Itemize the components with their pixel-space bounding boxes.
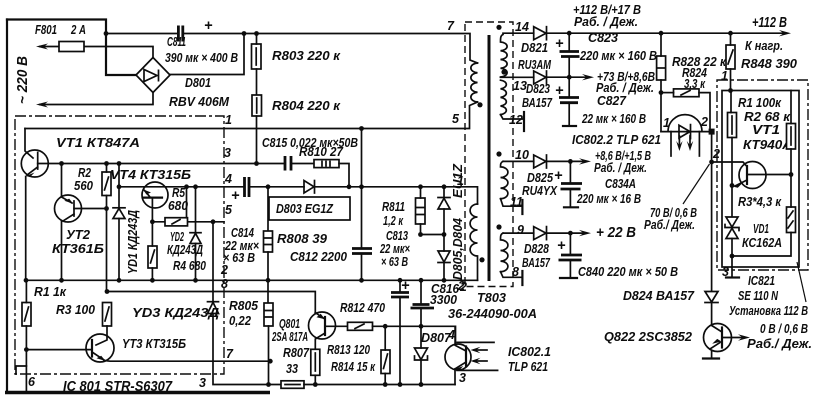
wire line221 pin5 [152, 221, 224, 223]
secondary winding 14-13 [501, 35, 508, 78]
wire main DC rail left of C811 [106, 33, 177, 35]
R808 inner bars [264, 238, 272, 245]
svg-text:680: 680 [168, 198, 189, 213]
wire line163 between C815 R810 [292, 163, 315, 165]
node C812 pin4 line [359, 184, 364, 189]
svg-text:+: + [204, 18, 213, 34]
VT1 right emitter arrowhead [734, 183, 743, 188]
wire C812 column upper [361, 129, 363, 249]
svg-text:F801: F801 [35, 22, 57, 37]
R2 right inner bar [790, 127, 792, 145]
svg-text:10: 10 [515, 148, 529, 162]
YD2 triangle [190, 233, 201, 243]
VT1 right collector wire [747, 174, 791, 176]
feedback winding 1-2 [470, 204, 477, 280]
arrow AC line1 [36, 44, 48, 50]
resistor R804 [252, 95, 262, 116]
node pin8 line R2R3 column [105, 289, 110, 294]
node VT4 emitter line221 [150, 219, 155, 224]
node rail R848 [728, 31, 733, 36]
node D804 pin2 line [442, 278, 447, 283]
R807 inner mark [314, 353, 316, 371]
wire C812 column lower [361, 254, 363, 281]
+73V arrowhead [582, 74, 594, 80]
winding14 phasing dot [496, 25, 501, 30]
capacitor C834A [569, 161, 571, 183]
diode D823 [534, 71, 546, 84]
wire pin13 center tap [501, 76, 534, 78]
svg-text:К нагр.: К нагр. [745, 38, 783, 53]
winding9 phasing dot [496, 224, 501, 229]
wire pin8 line [107, 292, 315, 313]
capacitor C814 plates [245, 177, 250, 197]
D825 bar [546, 155, 548, 168]
svg-text:1: 1 [663, 116, 670, 130]
svg-text:D801: D801 [185, 75, 211, 90]
label box D803 [269, 197, 350, 220]
svg-text:3: 3 [722, 265, 729, 279]
svg-text:D821: D821 [521, 40, 548, 55]
wire R1 bottom to VT3 base [25, 326, 27, 350]
resistor R1 1k [22, 303, 31, 327]
svg-text:2: 2 [220, 263, 228, 277]
resistor R2 560 [102, 172, 111, 196]
svg-text:IC821: IC821 [748, 273, 775, 288]
wire R811 bottom [420, 224, 422, 235]
wire C834A bottom [569, 189, 571, 206]
svg-text:3: 3 [224, 146, 231, 160]
wire R2 right top [790, 91, 792, 124]
zener VD1 KC162A triangle upper [726, 217, 738, 227]
wire D807 bottom [420, 360, 422, 385]
capacitor C811 [178, 26, 182, 42]
wire small link left [16, 366, 26, 374]
VT1 right emitter diag [735, 180, 747, 186]
wire C816 bottom to base line [420, 308, 422, 326]
node C812 top pin1 line [359, 126, 364, 131]
svg-text:8: 8 [221, 277, 228, 291]
wire C813 bottom [399, 297, 401, 385]
wire R808 bottom [267, 252, 269, 303]
node R813 rail [383, 382, 388, 387]
wire AC line 2 with arrow [40, 93, 153, 105]
+8.6V arrowhead [579, 158, 591, 164]
primary winding [471, 63, 478, 102]
transistor Q801 [309, 312, 336, 339]
capacitor C840 [569, 233, 571, 254]
svg-text:R1 1к: R1 1к [34, 284, 67, 299]
svg-text:VD1: VD1 [753, 221, 769, 236]
svg-text:Раб. / Деж.: Раб. / Деж. [574, 14, 638, 29]
node D807 rail [419, 382, 424, 387]
svg-text:С823: С823 [588, 30, 619, 45]
svg-text:RU3АМ: RU3АМ [518, 57, 552, 72]
R848 inner slash [728, 50, 733, 64]
VT3 emitter arrowhead [97, 356, 106, 361]
node base node 2 [709, 160, 714, 165]
svg-text:36-244090-00А: 36-244090-00А [448, 306, 537, 321]
C816 plates [411, 305, 435, 309]
wire C827 bottom [568, 103, 570, 125]
D823 bar [546, 71, 548, 84]
IC802.1 emitter arrowhead [455, 366, 463, 370]
svg-text:560: 560 [74, 178, 94, 193]
node rail R828 [659, 31, 664, 36]
R1 right inner bar [731, 116, 733, 134]
diode YD2 KD243D [195, 187, 197, 233]
wire R2 bottom to VT2 base node [106, 196, 108, 292]
svg-text:× 63 В: × 63 В [223, 250, 255, 265]
node VT3 base [24, 347, 29, 352]
C823 plates [560, 52, 580, 57]
VT2 collector diag [63, 214, 74, 221]
wire R3 right top [790, 175, 792, 208]
arrow AC line2 [36, 102, 48, 108]
wire AC line 1 with arrow [40, 47, 153, 58]
node C816 top [419, 278, 424, 283]
Q822 collector diag [712, 326, 722, 332]
resistor R813 R814 [381, 350, 390, 374]
svg-text:D803 ЕG1Z: D803 ЕG1Z [276, 201, 334, 216]
diode D805 [443, 187, 445, 198]
node C813 top [398, 278, 403, 283]
svg-text:2SA 817А: 2SA 817А [271, 329, 308, 344]
D824 bar [705, 302, 718, 304]
node line163 R2 [104, 161, 109, 166]
svg-text:5: 5 [225, 203, 233, 217]
wire R828 top [660, 33, 662, 56]
transistor VT4 [142, 182, 168, 208]
svg-text:R808 39: R808 39 [277, 231, 328, 246]
node D823 C823 [567, 75, 572, 80]
node rail junction R803 [254, 31, 259, 36]
resistor R3 4.3k right [787, 207, 796, 233]
svg-text:14: 14 [515, 20, 529, 34]
svg-text:С812 2200: С812 2200 [290, 249, 348, 264]
VT1 emitter arrow [27, 167, 38, 175]
C827 plates [559, 98, 579, 103]
svg-text:22 мк × 160 В: 22 мк × 160 В [581, 111, 646, 126]
D805 triangle [438, 198, 450, 209]
resistor R824 3.3k [674, 89, 700, 97]
wire C823 bottom [568, 57, 570, 78]
node R828 R824 [659, 90, 664, 95]
wire D823 out [547, 76, 590, 78]
node VT1 right emitter [730, 183, 735, 188]
svg-text:0,22: 0,22 [229, 313, 252, 328]
Q822 emitter wire with arrow [722, 337, 745, 339]
wire D804 bottom [443, 263, 445, 281]
bridge rectifier D801 [136, 58, 170, 93]
svg-text:4: 4 [447, 328, 455, 342]
svg-text:R814 15 к: R814 15 к [331, 359, 376, 374]
wire C840 bottom [569, 260, 571, 277]
wire R4 bottom [151, 268, 153, 280]
rail arrowhead [779, 30, 791, 36]
wire R1 right top [730, 91, 732, 113]
node VT2 base R2 column [104, 206, 109, 211]
wire R848 top [730, 33, 732, 45]
wire pin14 [503, 32, 534, 34]
svg-text:R807: R807 [283, 345, 310, 360]
secondary winding 10-11 [501, 161, 508, 198]
svg-text:R805: R805 [229, 298, 259, 313]
svg-text:+: + [231, 188, 240, 204]
svg-text:КТ940А: КТ940А [743, 137, 792, 152]
wire pin4 line right of D803 [315, 187, 478, 204]
diode D828 [534, 227, 546, 240]
svg-text:1,2 к: 1,2 к [383, 213, 404, 228]
svg-text:УТ2: УТ2 [66, 227, 91, 242]
node R808 top pin4 line [266, 184, 271, 189]
svg-text:RU4YX: RU4YX [522, 183, 558, 198]
wire D824 to Q822 [711, 303, 713, 326]
resistor R805 0.22 [264, 303, 273, 326]
svg-text:1: 1 [457, 174, 464, 188]
C827 end bar [563, 125, 576, 127]
svg-text:Раб./ Деж.: Раб./ Деж. [644, 217, 695, 232]
wire pin8 [501, 272, 523, 278]
primary phasing dot [477, 102, 482, 107]
svg-text:13: 13 [513, 79, 527, 93]
YD1 cathode bar [113, 207, 125, 209]
IC802.2 leg 2 [698, 132, 700, 156]
wire R1 top [25, 280, 27, 302]
resistor R807 33 [311, 349, 320, 375]
optocoupler IC802.2 LED line [661, 131, 712, 133]
wire R824 right down [699, 93, 710, 128]
svg-text:6: 6 [28, 375, 36, 389]
fuse F801 [59, 42, 84, 52]
wire pin6 down to frame [25, 350, 27, 392]
wire R803 top [256, 34, 258, 45]
svg-text:ТLР 621: ТLР 621 [508, 359, 548, 374]
rail resistor inner mark [285, 384, 300, 386]
svg-text:3,3 к: 3,3 к [684, 76, 706, 91]
R3 right inner slashes [788, 211, 793, 228]
svg-text:Раб. / Деж.: Раб. / Деж. [594, 160, 647, 175]
leader diagonal 70V [683, 164, 710, 204]
secondary winding 9-8 [501, 233, 508, 272]
node R804 on line163 [254, 161, 259, 166]
Q822 end bar [703, 357, 719, 359]
node YD1 pin4 line [117, 184, 122, 189]
R3 inner slash [105, 307, 109, 321]
wire pin2 line [26, 279, 478, 281]
R811 inner bars [416, 208, 425, 215]
svg-text:2: 2 [712, 147, 720, 161]
pin12 end bar [523, 112, 525, 131]
svg-text:+: + [557, 238, 566, 254]
IC802.2 dome arc [668, 115, 702, 132]
svg-text:SЕ 110 N: SЕ 110 N [738, 288, 778, 303]
node R805 bottom rail [266, 382, 271, 387]
node collector R2 [789, 172, 794, 177]
R5 inner slash [172, 220, 180, 225]
resistor R812 470 [348, 322, 373, 330]
svg-text:2: 2 [700, 115, 708, 129]
diode D807 triangle [415, 348, 428, 360]
C840 end bar [560, 277, 577, 279]
wire R3 bottom to VT3 collector [96, 326, 107, 345]
capacitor C823 [568, 33, 570, 51]
resistor R804 inner mark [256, 98, 258, 113]
node D825 C834A [568, 159, 573, 164]
node link right [442, 232, 447, 237]
D805 bar [438, 197, 450, 199]
svg-text:КТ361Б: КТ361Б [52, 241, 104, 256]
feedback phasing dot [479, 257, 484, 262]
light arrow 1 head [471, 347, 481, 353]
svg-text:3300: 3300 [430, 292, 458, 307]
Q822 emitter arrow out head [738, 334, 750, 340]
svg-text:R803 220 к: R803 220 к [272, 48, 341, 63]
transistor VT2 [55, 195, 82, 222]
svg-text:D824 ВА157: D824 ВА157 [623, 288, 695, 303]
svg-text:С840 220 мк × 50 В: С840 220 мк × 50 В [578, 264, 678, 279]
VT4 arrow to base line [145, 191, 151, 198]
secondary winding 13-12 [501, 80, 507, 114]
svg-text:9: 9 [517, 223, 524, 237]
VT1 right internal bar [746, 166, 748, 184]
node YD2 pin2 line [193, 278, 198, 283]
R4 inner slash [151, 250, 155, 263]
svg-text:R804 220 к: R804 220 к [272, 98, 341, 113]
svg-text:YТ3 КТ315Б: YТ3 КТ315Б [122, 336, 186, 351]
svg-text:IC802.1: IC802.1 [508, 344, 551, 359]
D828 bar [546, 227, 548, 240]
wire Q822 bottom [711, 351, 713, 358]
diode D824 [705, 292, 718, 303]
svg-text:VT4 КТ315Б: VT4 КТ315Б [110, 167, 191, 182]
diode D825 [534, 155, 546, 168]
R2 inner slash [105, 177, 109, 190]
svg-text:D805,D804: D805,D804 [450, 217, 465, 280]
resistor R2 68k right [787, 124, 796, 150]
wire YD3 column from line221 [212, 222, 214, 302]
IC821 inner solid box [722, 91, 799, 268]
wire R3 right bottom link [732, 233, 791, 257]
svg-text:RBV 406М: RBV 406М [169, 94, 230, 109]
IC821 pin3 end bar [726, 276, 739, 278]
node R808 pin2 line [266, 278, 271, 283]
wire +112 rail [547, 32, 787, 34]
wire R808 top [267, 187, 269, 231]
+22V arrowhead [579, 230, 591, 236]
svg-text:+: + [401, 278, 410, 294]
VD1 triangle lower [726, 228, 738, 238]
resistor R1 100k right [728, 113, 737, 138]
wire D828 out [547, 232, 587, 234]
wire pin10 [503, 160, 534, 162]
D803 cathode bar [314, 181, 316, 194]
node C812 pin2 line [359, 278, 364, 283]
resistor R4 680 [148, 246, 157, 268]
wire pin9 [503, 232, 534, 234]
transformer core [488, 35, 491, 281]
svg-text:VТ1: VТ1 [752, 122, 780, 137]
node D805 top [442, 184, 447, 189]
node R4 pin2 line [150, 278, 155, 283]
IC802.1 emitter wire down [454, 369, 456, 385]
wire R828 bottom to LED [660, 80, 662, 132]
winding10 phasing dot [496, 151, 501, 156]
svg-text:Раб./ Деж.: Раб./ Деж. [747, 336, 812, 351]
svg-text:220 мк × 160 В: 220 мк × 160 В [579, 48, 657, 63]
IC802.2 leg 1 [670, 132, 672, 156]
light arrow 2 head [471, 358, 481, 364]
svg-text:С827: С827 [597, 93, 627, 108]
wire R2 right bottom [790, 149, 792, 175]
wire R824 left [661, 92, 674, 94]
resistor on bottom rail [281, 381, 304, 389]
C840 plates [559, 255, 583, 260]
wire VD1 bottom [731, 239, 733, 268]
node D828 C840 [568, 231, 573, 236]
transformer T803 dashed box [465, 22, 513, 287]
resistor R803 [252, 44, 262, 69]
Q801 emitter diag with arrow [315, 313, 324, 319]
wire main DC rail right of C811 to transformer pin7 corner [184, 34, 478, 64]
YD3 triangle [208, 302, 219, 313]
svg-text:VТ1 КТ847А: VТ1 КТ847А [56, 135, 140, 150]
svg-text:R1 100к: R1 100к [738, 95, 782, 110]
resistor R803 inner mark [255, 48, 257, 65]
Q822 emitter arrowhead [712, 339, 721, 344]
transistor Q822 [704, 324, 732, 352]
wire left frame vertical [6, 20, 8, 393]
IC802.1 emitter diag [456, 362, 466, 368]
svg-text:2: 2 [457, 279, 465, 293]
VT3 base wire [26, 349, 92, 351]
wire pin11 [501, 199, 523, 207]
R824 inner slash [681, 91, 690, 96]
svg-text:7: 7 [226, 347, 234, 361]
wire R803 to R804 [256, 69, 258, 95]
leader to ustanovka [797, 262, 806, 302]
C834A plates [561, 184, 583, 190]
bridge inner diode [144, 70, 159, 82]
resistor R848 390 [726, 45, 735, 69]
svg-text:8: 8 [512, 265, 519, 279]
node line221 YD3 column [211, 219, 216, 224]
svg-text:~ 220 В: ~ 220 В [15, 56, 31, 104]
diode D821 [534, 27, 546, 40]
R1 inner slash [25, 307, 29, 321]
svg-text:IC 801 STR-S6307: IC 801 STR-S6307 [63, 379, 173, 395]
wire R812 right to opto corner [373, 326, 456, 345]
svg-text:КС162А: КС162А [742, 235, 782, 250]
node VD1 R3 link [730, 254, 735, 259]
wire D805 D804 [443, 209, 445, 251]
svg-text:× 63 В: × 63 В [381, 254, 408, 269]
node R807 rail [313, 382, 318, 387]
transistor VT1 right [739, 162, 766, 189]
diode D803 EG1Z [304, 181, 314, 194]
pin11 end bar [521, 200, 523, 214]
node line163 VT2 [59, 161, 64, 166]
Q801 collector diag [315, 333, 325, 349]
svg-text:С834А: С834А [605, 176, 636, 191]
svg-text:+: + [555, 36, 564, 52]
R828 inner bar [657, 67, 665, 69]
YD1 triangle [113, 208, 125, 218]
node R811 top [418, 184, 423, 189]
wire VT1 base line [712, 162, 747, 167]
VT3 internal bar [91, 340, 93, 357]
node link left [418, 232, 423, 237]
wire R807 bottom [314, 375, 316, 384]
